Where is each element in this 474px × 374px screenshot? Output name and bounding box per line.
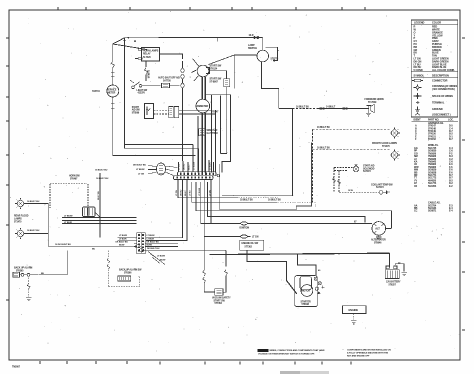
svg-text:METER: METER xyxy=(108,92,116,94)
svg-text:VACUUM SAFETY: VACUUM SAFETY xyxy=(212,297,231,300)
svg-text:B-7: B-7 xyxy=(449,138,453,141)
svg-text:16 BU/R: 16 BU/R xyxy=(147,70,149,79)
svg-text:DK BU/LT BU: DK BU/LT BU xyxy=(147,248,160,250)
svg-text:IGNITION: IGNITION xyxy=(240,228,250,230)
start aid switch S9 xyxy=(132,104,169,119)
instrument panel box xyxy=(198,95,231,173)
engine block xyxy=(343,306,367,324)
svg-text:HORN SW: HORN SW xyxy=(69,176,80,178)
svg-text:TERMINAL: TERMINAL xyxy=(432,101,445,104)
svg-text:5T1470: 5T1470 xyxy=(382,145,390,148)
svg-text:ENGINE OIL SW: ENGINE OIL SW xyxy=(242,243,259,245)
svg-text:40: 40 xyxy=(318,269,321,272)
svg-text:COOLANT TEMP SW: COOLANT TEMP SW xyxy=(371,183,393,186)
ammeter M2 xyxy=(196,99,219,113)
svg-text:BU/W: BU/W xyxy=(160,259,165,261)
svg-text:( DISCONNECT ): ( DISCONNECT ) xyxy=(432,113,451,116)
svg-text:ALT: ALT xyxy=(375,226,380,230)
svg-text:16 DK BU/LT BU: 16 DK BU/LT BU xyxy=(55,244,71,246)
front flood lamp L1 xyxy=(391,127,400,138)
wire backup alarm feed xyxy=(66,250,68,274)
svg-text:5G1854: 5G1854 xyxy=(428,185,437,188)
rear flood lamp L4 xyxy=(15,228,26,239)
wire dotted run to coolant xyxy=(178,180,315,206)
wire labels above strip xyxy=(179,162,212,170)
connector block J2 xyxy=(116,233,160,254)
svg-text:5A7473: 5A7473 xyxy=(363,170,371,173)
notice note xyxy=(258,349,326,356)
wires above strip xyxy=(179,145,214,172)
machine body outline xyxy=(220,142,312,210)
svg-text:MOTOR: MOTOR xyxy=(302,289,311,292)
svg-text:E-4: E-4 xyxy=(449,210,453,213)
svg-text:REAR FLOOD: REAR FLOOD xyxy=(14,214,29,217)
engine oil switch S5 xyxy=(204,235,264,250)
wire pair to instrument box xyxy=(125,145,199,149)
svg-text:5T-8967: 5T-8967 xyxy=(210,81,219,84)
service meter M1 xyxy=(92,85,119,97)
svg-text:LIGHT SW: LIGHT SW xyxy=(137,90,148,92)
wire to alternator top xyxy=(208,182,366,222)
wire long feed to battery junction xyxy=(196,182,391,228)
svg-text:16 BU/LT BU: 16 BU/LT BU xyxy=(317,148,330,150)
wire long battery cable xyxy=(210,253,390,268)
wires from horn switch to block xyxy=(62,207,136,224)
front flood lamp L2 xyxy=(391,149,400,160)
svg-text:SOLENOID: SOLENOID xyxy=(363,168,375,170)
svg-text:SEND SAF: SEND SAF xyxy=(207,129,219,132)
svg-text:LT GN: LT GN xyxy=(252,236,259,238)
rear flood lamp L3 xyxy=(15,198,26,209)
svg-text:TM2067: TM2067 xyxy=(12,367,21,369)
start aid relay K3 xyxy=(169,107,216,118)
svg-text:5T6497: 5T6497 xyxy=(70,178,78,181)
light switch S2 xyxy=(130,80,148,95)
svg-text:STARTER: STARTER xyxy=(301,300,312,303)
svg-text:LT BU/R: LT BU/R xyxy=(147,238,155,240)
bulkhead connector strip J1 xyxy=(174,172,220,180)
horn switch S6 xyxy=(50,176,95,217)
svg-text:SYMBOL: SYMBOL xyxy=(414,73,425,77)
circuit breaker CB1 xyxy=(209,71,230,154)
connector on top bus 16-R xyxy=(249,34,259,38)
wire labels left rows xyxy=(55,244,95,250)
svg-text:DK BU/LT BU: DK BU/LT BU xyxy=(116,241,129,243)
svg-text:ALL COLOR COMB.: ALL COLOR COMB. xyxy=(432,68,455,72)
backup alarm switch S7 xyxy=(107,250,142,286)
wire lamp switch down to horn feed xyxy=(262,62,279,109)
wire start aid solenoid (dashed verticals with breaks) xyxy=(334,168,353,193)
connector pair on lower rows xyxy=(135,245,160,252)
svg-text:BACK UP ALARM SW: BACK UP ALARM SW xyxy=(119,269,142,272)
wire vertical at 100 xyxy=(95,170,109,218)
svg-text:E-2: E-2 xyxy=(449,185,453,188)
svg-text:16 BU/LT BU: 16 BU/LT BU xyxy=(296,106,309,108)
wire relay to light switch (dashed with breaks) xyxy=(144,61,148,81)
svg-text:DESCRIPTION: DESCRIPTION xyxy=(432,73,449,77)
components note xyxy=(347,349,391,358)
svg-text:5G6871: 5G6871 xyxy=(428,210,437,213)
wires below strip to connector block xyxy=(146,180,211,270)
svg-text:SPLICE OF WIRES: SPLICE OF WIRES xyxy=(432,95,453,98)
svg-text:18 W: 18 W xyxy=(348,190,354,192)
wire service meter feed (dashed breaks) xyxy=(111,44,115,85)
svg-text:LT BU/W: LT BU/W xyxy=(157,255,165,257)
svg-text:LT BU/W: LT BU/W xyxy=(194,162,196,170)
svg-text:LT BU/W: LT BU/W xyxy=(147,235,155,237)
svg-text:5T8648: 5T8648 xyxy=(302,303,310,306)
svg-text:16 BU/LT BU: 16 BU/LT BU xyxy=(95,170,108,172)
svg-text:COMPONENTS ARE SHOWN INSTAL: COMPONENTS ARE SHOWN INSTALLED ON xyxy=(347,349,391,352)
backup alarm ground xyxy=(26,278,31,301)
wire top bus xyxy=(113,37,263,149)
harness connector P2 xyxy=(133,163,178,176)
svg-text:16 BU/LT BU: 16 BU/LT BU xyxy=(268,200,281,202)
connector column right of auto shut off xyxy=(160,54,184,161)
wires connector block rows xyxy=(48,218,226,251)
svg-text:DK BU: DK BU xyxy=(184,163,186,170)
svg-text:LT BU/R: LT BU/R xyxy=(210,162,212,170)
svg-text:5T6366: 5T6366 xyxy=(124,273,132,275)
svg-text:12V BATTERY: 12V BATTERY xyxy=(386,280,401,283)
svg-text:ENGINE: ENGINE xyxy=(349,308,359,312)
svg-text:16-R: 16-R xyxy=(249,34,254,37)
engine oil pressure gauge box xyxy=(199,129,219,136)
svg-text:SERVICE: SERVICE xyxy=(107,89,117,91)
svg-text:DK BU/LT BU: DK BU/LT BU xyxy=(133,165,146,167)
svg-text:5T8599: 5T8599 xyxy=(132,113,140,115)
svg-text:LT BU/R: LT BU/R xyxy=(119,238,127,240)
svg-text:5T-7829: 5T-7829 xyxy=(368,101,377,104)
svg-text:CONNECTOR: CONNECTOR xyxy=(432,79,448,82)
parts list table xyxy=(411,118,457,212)
svg-text:CC: CC xyxy=(414,210,418,213)
svg-text:16 BU/LT BU: 16 BU/LT BU xyxy=(27,230,40,232)
svg-text:LT GN: LT GN xyxy=(138,174,144,176)
wire labels below strip xyxy=(176,188,211,196)
diagonal spur wires xyxy=(148,252,165,265)
svg-text:IDENT: IDENT xyxy=(414,118,422,121)
starter assembly M3 xyxy=(295,269,325,306)
svg-text:F: F xyxy=(415,138,417,141)
svg-text:5T4152: 5T4152 xyxy=(428,138,437,141)
svg-text:LT BU/W: LT BU/W xyxy=(64,216,73,218)
svg-text:A FULLY OPERABLE MACHINE W: A FULLY OPERABLE MACHINE WITH THE xyxy=(347,352,389,355)
svg-text:7H5744: 7H5744 xyxy=(92,90,100,93)
horn lamps relay K1 xyxy=(135,48,160,62)
svg-text:KEY AND ENGINE OFF: KEY AND ENGINE OFF xyxy=(347,355,370,358)
svg-text:LOC.: LOC. xyxy=(448,118,454,121)
svg-text:16 BU/LT BU: 16 BU/LT BU xyxy=(317,127,330,129)
svg-text:GROUND: GROUND xyxy=(432,108,443,111)
wire cable to starter xyxy=(247,250,316,294)
svg-text:5T6257: 5T6257 xyxy=(389,284,397,286)
svg-text:LT BU/W: LT BU/W xyxy=(136,169,145,171)
wire start switch to lamp switch xyxy=(209,38,258,89)
svg-text:BU/LT: BU/LT xyxy=(189,164,191,170)
battery BT1 xyxy=(385,263,407,287)
svg-text:BU/LT BU: BU/LT BU xyxy=(98,191,100,200)
svg-text:SWITCH: SWITCH xyxy=(248,47,257,50)
auto shut off aid R1 xyxy=(142,76,180,87)
svg-text:BACK UP ALARM: BACK UP ALARM xyxy=(14,266,32,269)
svg-text:14 BU/LT: 14 BU/LT xyxy=(326,105,336,108)
symbol description rows xyxy=(412,79,457,116)
svg-text:XX: XX xyxy=(414,185,418,188)
svg-text:5T8646: 5T8646 xyxy=(374,241,382,244)
svg-text:LT BU/R: LT BU/R xyxy=(64,222,72,224)
svg-text:5T7352: 5T7352 xyxy=(215,303,223,305)
svg-text:LT GN: LT GN xyxy=(176,190,178,196)
svg-text:LAMPS: LAMPS xyxy=(14,217,22,220)
svg-text:5T6124: 5T6124 xyxy=(210,67,218,70)
svg-text:AUTO SHUT OFF AID: AUTO SHUT OFF AID xyxy=(158,76,180,79)
svg-text:COLOR: COLOR xyxy=(432,21,441,25)
wire main feed pair xyxy=(202,77,205,173)
svg-text:5A7758: 5A7758 xyxy=(163,79,171,82)
alternator G1 xyxy=(371,222,391,245)
svg-text:16 BU/LT BU: 16 BU/LT BU xyxy=(27,201,40,203)
svg-text:WIRES, CONDUCTORS AND COMPONEN: WIRES, CONDUCTORS AND COMPONENTS THAT HA… xyxy=(270,349,326,352)
svg-text:16 BU/LT BU: 16 BU/LT BU xyxy=(96,178,109,180)
svg-text:AMMETER: AMMETER xyxy=(197,105,209,108)
front flood lamps label xyxy=(372,142,397,148)
ignition connector xyxy=(201,182,251,230)
coolant temp switch S4 xyxy=(339,183,393,194)
svg-text:LT BU/W: LT BU/W xyxy=(199,188,201,196)
svg-text:VOLTAGE ON THEM WHEN KEY SWITC: VOLTAGE ON THEM WHEN KEY SWITCH IS TURNE… xyxy=(258,353,315,356)
svg-text:4J2376: 4J2376 xyxy=(138,92,146,95)
svg-text:5T1470: 5T1470 xyxy=(14,220,22,223)
svg-text:START AID: START AID xyxy=(363,165,375,168)
start switch S1 xyxy=(192,59,222,84)
forward horn H1 xyxy=(365,98,384,116)
wire front flood lamps (dashed) xyxy=(313,129,391,202)
svg-text:5A7473: 5A7473 xyxy=(376,186,384,189)
svg-text:BU: BU xyxy=(92,249,95,251)
rear flood lamps label xyxy=(14,201,40,232)
svg-text:ALTERNATOR: ALTERNATOR xyxy=(371,239,386,242)
svg-text:5T7362: 5T7362 xyxy=(245,247,253,249)
svg-text:GA 5T7603: GA 5T7603 xyxy=(207,132,219,135)
svg-text:AID SW: AID SW xyxy=(132,109,141,112)
wire color legend table xyxy=(411,20,457,117)
wire to alternator left with 67 label xyxy=(251,222,372,224)
svg-text:LEGEND: LEGEND xyxy=(414,21,425,25)
svg-text:5L7420: 5L7420 xyxy=(143,56,151,59)
svg-text:START SW: START SW xyxy=(214,299,226,302)
svg-text:( NO CONNECTION ): ( NO CONNECTION ) xyxy=(432,88,455,91)
svg-text:LT BU/W: LT BU/W xyxy=(119,235,127,237)
backup alarm B1 xyxy=(13,266,67,277)
svg-text:LT BU: LT BU xyxy=(190,190,192,196)
svg-text:18 BU/LT BU: 18 BU/LT BU xyxy=(240,200,253,202)
svg-text:START: START xyxy=(132,106,140,109)
start aid solenoid K2 xyxy=(353,165,375,174)
wire horn feed xyxy=(222,105,367,195)
wire service meter to bottom run xyxy=(111,97,196,155)
vacuum safety start switch S8 xyxy=(203,223,231,305)
svg-text:5 COND: 5 COND xyxy=(414,68,423,72)
lamp switch S3 xyxy=(248,37,279,61)
wire rear flood lamps xyxy=(24,204,49,247)
